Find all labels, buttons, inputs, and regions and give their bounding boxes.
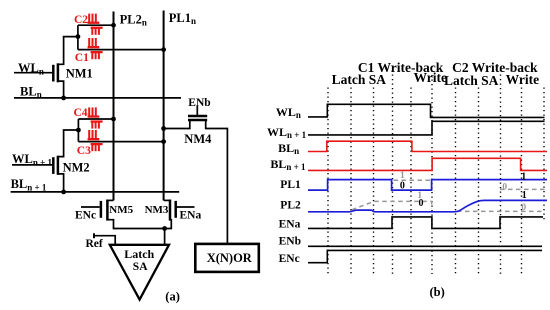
svg-text:SA: SA [133, 261, 148, 273]
svg-text:(b): (b) [430, 285, 445, 299]
svg-text:BLn + 1: BLn + 1 [270, 157, 306, 172]
svg-text:BLn: BLn [278, 141, 299, 156]
svg-text:0: 0 [419, 198, 424, 209]
svg-text:BLn: BLn [20, 84, 42, 99]
svg-text:ENc: ENc [75, 210, 96, 222]
svg-text:ENa: ENa [279, 219, 301, 231]
svg-text:Latch: Latch [124, 247, 154, 261]
svg-text:1: 1 [522, 190, 527, 201]
svg-text:NM4: NM4 [184, 132, 212, 146]
svg-text:1: 1 [521, 171, 526, 182]
svg-text:C3: C3 [77, 145, 91, 157]
svg-text:Write: Write [506, 72, 540, 87]
svg-text:C1: C1 [75, 52, 89, 64]
svg-text:NM1: NM1 [66, 66, 93, 80]
svg-text:BLn + 1: BLn + 1 [11, 177, 47, 192]
svg-text:C2: C2 [74, 14, 88, 26]
svg-text:ENb: ENb [279, 235, 301, 247]
svg-text:(a): (a) [165, 290, 180, 304]
svg-text:0: 0 [521, 203, 526, 213]
svg-text:PL2n: PL2n [120, 12, 147, 27]
svg-text:0: 0 [400, 180, 405, 191]
svg-text:PL1: PL1 [280, 179, 301, 191]
svg-text:C4: C4 [74, 107, 88, 119]
svg-text:Latch SA: Latch SA [332, 72, 387, 87]
svg-text:WLn + 1: WLn + 1 [267, 125, 307, 140]
svg-text:NM3: NM3 [145, 204, 169, 216]
svg-text:X(N)OR: X(N)OR [207, 251, 253, 265]
svg-text:WLn + 1: WLn + 1 [12, 152, 52, 167]
svg-text:WLn: WLn [276, 105, 301, 120]
svg-text:Latch SA: Latch SA [444, 73, 499, 88]
svg-text:PL1n: PL1n [169, 11, 196, 26]
svg-text:ENc: ENc [279, 253, 300, 265]
svg-text:PL2: PL2 [280, 200, 301, 212]
svg-text:0: 0 [502, 182, 507, 192]
svg-text:ENb: ENb [188, 97, 210, 109]
svg-text:NM2: NM2 [63, 161, 90, 175]
svg-text:WLn: WLn [18, 61, 44, 76]
svg-text:Write: Write [414, 70, 448, 85]
svg-text:ENa: ENa [180, 210, 202, 222]
svg-text:Ref: Ref [86, 238, 103, 250]
svg-text:NM5: NM5 [109, 204, 133, 216]
